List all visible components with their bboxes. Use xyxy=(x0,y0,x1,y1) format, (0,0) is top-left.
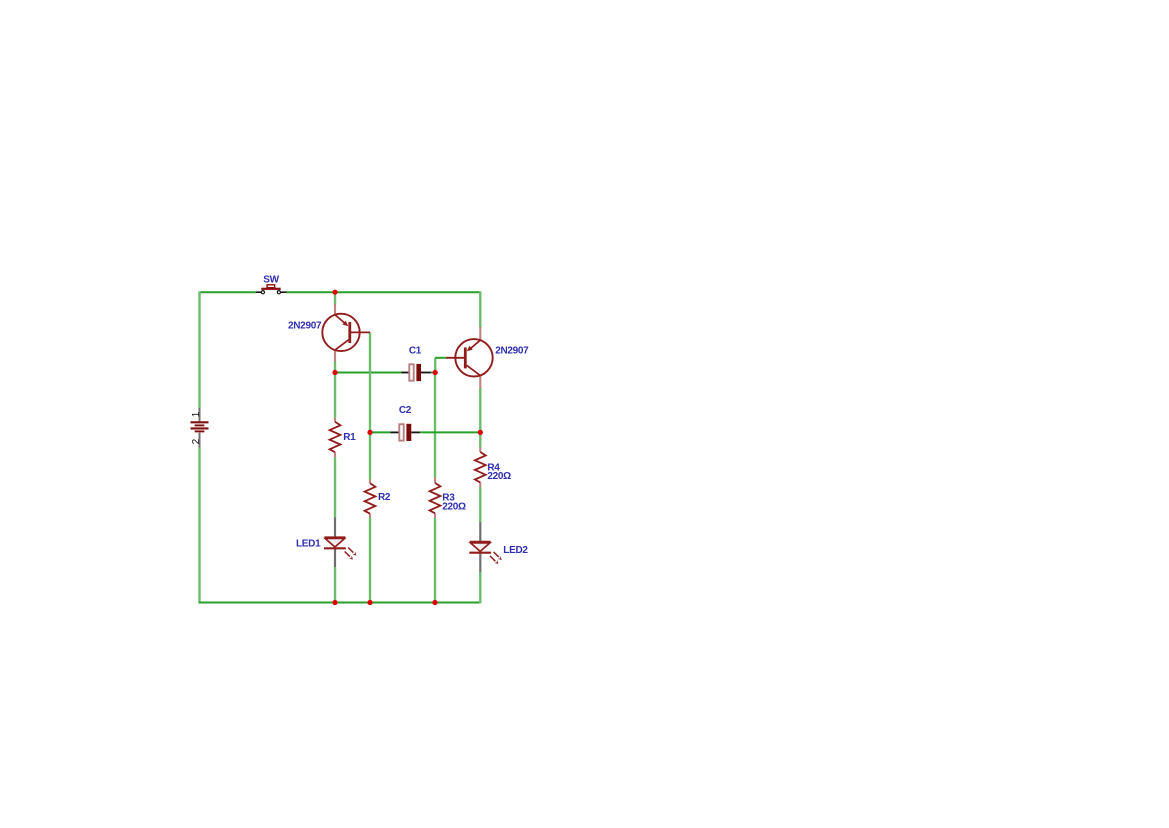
label 2N2907 (Q1) xyxy=(288,320,322,331)
resistor R3 220ohm xyxy=(430,478,441,518)
switch SW xyxy=(256,285,287,294)
junction node xyxy=(332,290,337,295)
wire xyxy=(435,357,446,359)
junction node xyxy=(433,370,438,375)
junction node xyxy=(478,430,483,435)
svg-text:C1: C1 xyxy=(409,346,422,357)
svg-text:LED2: LED2 xyxy=(503,545,528,556)
junction node xyxy=(367,600,372,605)
label LED1 xyxy=(296,539,321,550)
wire xyxy=(479,388,481,448)
label 2N2907 (Q2) xyxy=(495,346,529,357)
value 220 ohm (R3) xyxy=(442,502,466,513)
capacitor C2 xyxy=(391,424,420,441)
LED LED2 xyxy=(469,522,501,572)
wire xyxy=(334,567,336,603)
wire xyxy=(198,447,200,603)
pin 2 xyxy=(191,438,202,444)
svg-text:220Ω: 220Ω xyxy=(442,502,466,513)
svg-text:220Ω: 220Ω xyxy=(487,471,511,482)
battery BT1 xyxy=(191,408,209,448)
junction node xyxy=(432,600,437,605)
svg-text:2: 2 xyxy=(191,438,202,444)
svg-text:LED1: LED1 xyxy=(296,539,321,550)
wire xyxy=(369,517,371,602)
svg-text:R1: R1 xyxy=(343,432,356,443)
label LED2 xyxy=(503,545,528,556)
wire xyxy=(334,361,336,372)
capacitor C1 xyxy=(401,364,430,381)
label SW xyxy=(263,275,279,286)
svg-text:1: 1 xyxy=(191,411,202,417)
wire xyxy=(479,487,481,522)
wire xyxy=(198,291,200,408)
resistor R1 xyxy=(330,418,341,457)
wire xyxy=(370,431,391,433)
junction node xyxy=(332,600,337,605)
wire xyxy=(334,292,336,304)
svg-text:R2: R2 xyxy=(378,492,391,503)
label C1 xyxy=(409,346,422,357)
junction node xyxy=(367,430,372,435)
wire xyxy=(420,431,480,433)
wire xyxy=(199,602,481,604)
wire xyxy=(335,372,402,374)
wire xyxy=(369,332,371,479)
wire xyxy=(479,572,481,603)
label R2 xyxy=(378,492,391,503)
wire xyxy=(434,358,436,373)
wire xyxy=(200,291,256,293)
svg-text:2N2907: 2N2907 xyxy=(495,346,529,357)
wire xyxy=(287,291,481,293)
resistor R4 220ohm xyxy=(475,448,486,488)
svg-text:2N2907: 2N2907 xyxy=(288,320,322,331)
svg-text:SW: SW xyxy=(263,275,279,286)
junction node xyxy=(332,370,337,375)
label C2 xyxy=(399,405,412,416)
label R1 xyxy=(343,432,356,443)
wire xyxy=(434,373,436,478)
resistor R2 xyxy=(365,480,376,518)
wire xyxy=(431,372,435,374)
transistor Q1 2N2907 xyxy=(322,304,370,362)
value 220 ohm (R4) xyxy=(487,471,511,482)
LED LED1 xyxy=(324,518,356,568)
transistor Q2 2N2907 xyxy=(446,327,493,388)
wire xyxy=(334,373,336,418)
pin 1 xyxy=(191,411,202,417)
wire xyxy=(434,518,436,603)
label R4 xyxy=(487,463,500,474)
wire xyxy=(479,291,481,327)
label R3 xyxy=(442,493,455,504)
wire xyxy=(334,457,336,517)
svg-text:C2: C2 xyxy=(399,405,412,416)
